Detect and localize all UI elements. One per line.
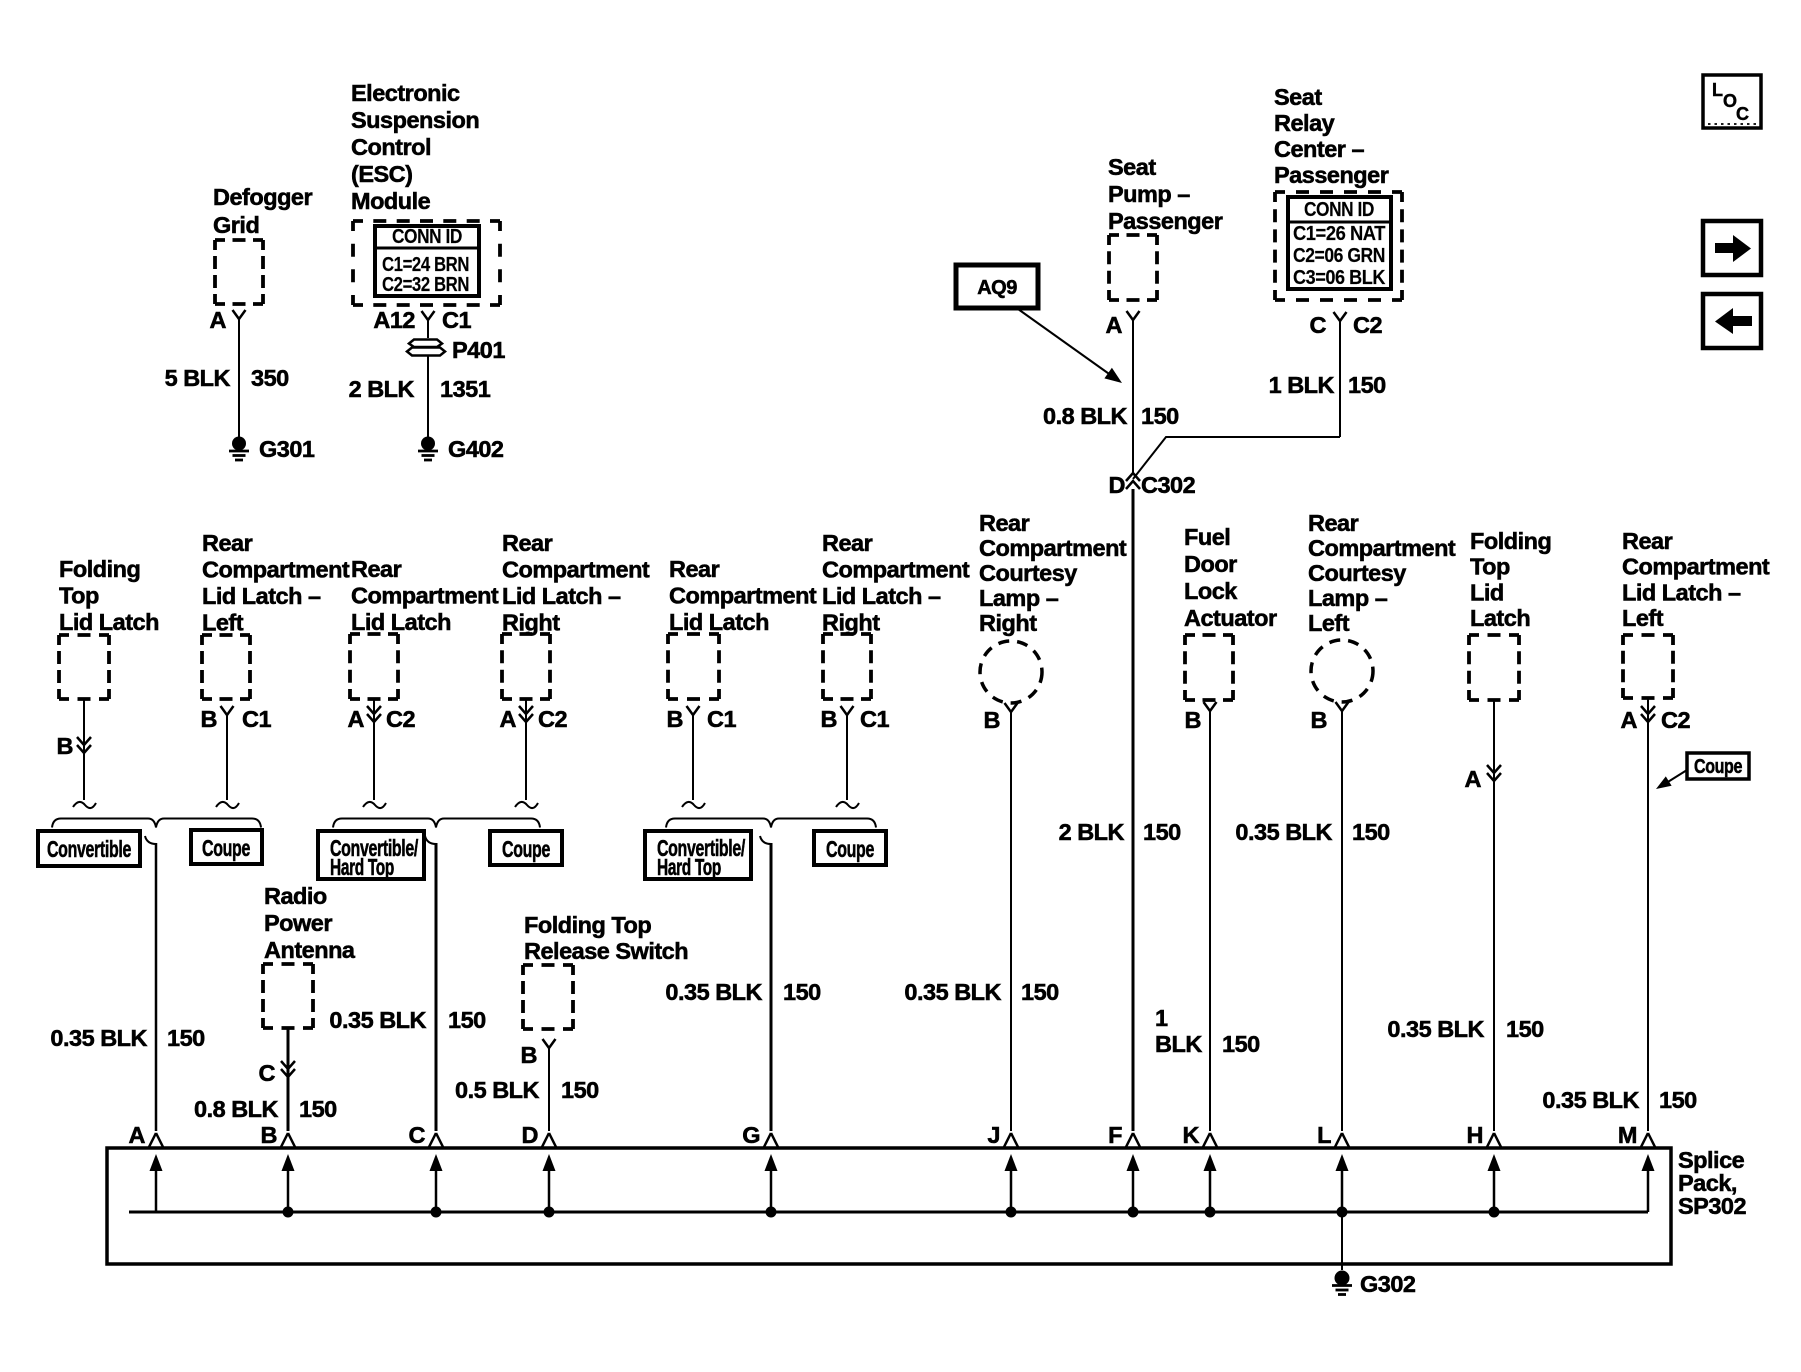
svg-text:0.35 BLK: 0.35 BLK — [1235, 819, 1332, 845]
svg-text:C: C — [1310, 312, 1327, 338]
svg-text:Left: Left — [1622, 605, 1664, 631]
svg-text:Antenna: Antenna — [264, 937, 356, 963]
svg-text:Grid: Grid — [213, 212, 259, 238]
svg-text:Door: Door — [1184, 551, 1237, 577]
svg-text:Relay: Relay — [1274, 110, 1335, 136]
svg-text:Right: Right — [822, 610, 880, 636]
svg-text:Lid Latch –: Lid Latch – — [502, 583, 621, 609]
svg-text:Center –: Center – — [1274, 136, 1364, 162]
svg-text:C2=06 GRN: C2=06 GRN — [1293, 245, 1385, 267]
svg-text:0.35 BLK: 0.35 BLK — [665, 979, 762, 1005]
svg-text:BLK: BLK — [1155, 1031, 1202, 1057]
svg-text:A: A — [129, 1122, 146, 1148]
svg-text:Rear: Rear — [1622, 528, 1673, 554]
svg-text:0.8 BLK: 0.8 BLK — [1043, 403, 1128, 429]
svg-text:Compartment: Compartment — [1622, 554, 1770, 580]
svg-text:150: 150 — [448, 1007, 486, 1033]
svg-text:Fuel: Fuel — [1184, 524, 1230, 550]
svg-text:Radio: Radio — [264, 883, 327, 909]
svg-text:B: B — [1185, 707, 1201, 733]
svg-text:C2: C2 — [1661, 707, 1690, 733]
svg-text:Actuator: Actuator — [1184, 605, 1277, 631]
svg-text:A: A — [348, 706, 365, 732]
svg-text:H: H — [1467, 1122, 1483, 1148]
svg-text:G301: G301 — [259, 436, 315, 462]
svg-text:1351: 1351 — [440, 376, 491, 402]
svg-text:C: C — [259, 1060, 276, 1086]
svg-text:150: 150 — [1141, 403, 1179, 429]
svg-text:0.5 BLK: 0.5 BLK — [455, 1077, 540, 1103]
svg-text:0.35 BLK: 0.35 BLK — [904, 979, 1001, 1005]
svg-text:150: 150 — [783, 979, 821, 1005]
svg-text:Pump –: Pump – — [1108, 181, 1190, 207]
svg-text:F: F — [1108, 1122, 1122, 1148]
svg-text:Electronic: Electronic — [351, 80, 460, 106]
svg-text:Defogger: Defogger — [213, 184, 313, 210]
svg-text:G302: G302 — [1360, 1271, 1416, 1297]
svg-text:350: 350 — [251, 365, 289, 391]
svg-text:Right: Right — [502, 610, 560, 636]
svg-text:150: 150 — [561, 1077, 599, 1103]
svg-text:CONN ID: CONN ID — [1304, 199, 1374, 221]
svg-text:Compartment: Compartment — [351, 583, 499, 609]
svg-text:150: 150 — [1659, 1087, 1697, 1113]
svg-text:150: 150 — [1143, 819, 1181, 845]
svg-text:Release Switch: Release Switch — [524, 938, 688, 964]
svg-text:B: B — [821, 706, 837, 732]
svg-text:C1: C1 — [860, 706, 889, 732]
svg-text:A: A — [500, 706, 517, 732]
svg-text:Folding: Folding — [1470, 528, 1551, 554]
svg-text:1: 1 — [1155, 1005, 1168, 1031]
svg-text:Top: Top — [1470, 554, 1510, 580]
svg-text:Power: Power — [264, 910, 332, 936]
svg-text:Suspension: Suspension — [351, 107, 479, 133]
svg-text:Left: Left — [202, 610, 244, 636]
svg-text:Lock: Lock — [1184, 578, 1238, 604]
svg-text:Rear: Rear — [669, 556, 720, 582]
svg-text:0.35 BLK: 0.35 BLK — [1387, 1016, 1484, 1042]
svg-text:G402: G402 — [448, 436, 504, 462]
svg-text:Courtesy: Courtesy — [1308, 560, 1406, 586]
svg-text:J: J — [987, 1122, 1000, 1148]
svg-text:Compartment: Compartment — [822, 557, 970, 583]
svg-text:C1: C1 — [707, 706, 736, 732]
svg-text:Coupe: Coupe — [202, 835, 250, 861]
svg-text:(ESC): (ESC) — [351, 161, 412, 187]
svg-text:Rear: Rear — [502, 530, 553, 556]
svg-text:M: M — [1618, 1122, 1637, 1148]
svg-text:Top: Top — [59, 583, 99, 609]
svg-text:A: A — [1465, 766, 1482, 792]
svg-text:A: A — [210, 307, 227, 333]
svg-text:C2: C2 — [386, 706, 415, 732]
svg-text:Hard Top: Hard Top — [657, 854, 721, 880]
svg-text:C1=26 NAT: C1=26 NAT — [1293, 223, 1385, 245]
svg-text:B: B — [261, 1122, 277, 1148]
svg-text:A: A — [1621, 707, 1638, 733]
svg-text:Lid Latch: Lid Latch — [669, 609, 769, 635]
svg-text:K: K — [1183, 1122, 1200, 1148]
svg-text:150: 150 — [1021, 979, 1059, 1005]
svg-text:SP302: SP302 — [1678, 1193, 1746, 1219]
svg-text:Folding Top: Folding Top — [524, 912, 651, 938]
svg-text:Left: Left — [1308, 610, 1350, 636]
svg-text:C1: C1 — [242, 706, 271, 732]
svg-text:Compartment: Compartment — [502, 557, 650, 583]
svg-text:AQ9: AQ9 — [977, 277, 1017, 299]
svg-text:C1=24 BRN: C1=24 BRN — [382, 254, 469, 276]
svg-text:Coupe: Coupe — [1694, 756, 1742, 778]
svg-text:Lid: Lid — [1470, 579, 1504, 605]
svg-text:150: 150 — [167, 1025, 205, 1051]
svg-text:C2: C2 — [538, 706, 567, 732]
svg-text:Courtesy: Courtesy — [979, 560, 1077, 586]
svg-text:Folding: Folding — [59, 556, 140, 582]
svg-text:0.35 BLK: 0.35 BLK — [329, 1007, 426, 1033]
svg-text:Seat: Seat — [1108, 154, 1156, 180]
svg-text:Seat: Seat — [1274, 84, 1322, 110]
svg-text:O: O — [1723, 91, 1737, 111]
svg-text:Coupe: Coupe — [826, 836, 874, 862]
svg-text:B: B — [57, 733, 73, 759]
svg-text:2 BLK: 2 BLK — [1059, 819, 1125, 845]
svg-text:5 BLK: 5 BLK — [165, 365, 231, 391]
svg-text:150: 150 — [1348, 372, 1386, 398]
svg-text:Compartment: Compartment — [202, 557, 350, 583]
svg-text:150: 150 — [299, 1096, 337, 1122]
svg-text:L: L — [1317, 1122, 1331, 1148]
svg-text:A12: A12 — [373, 307, 415, 333]
svg-text:Rear: Rear — [979, 510, 1030, 536]
svg-text:Lid Latch: Lid Latch — [59, 609, 159, 635]
svg-text:Latch: Latch — [1470, 605, 1530, 631]
svg-text:0.35 BLK: 0.35 BLK — [50, 1025, 147, 1051]
svg-text:Passenger: Passenger — [1274, 162, 1389, 188]
svg-text:Coupe: Coupe — [502, 836, 550, 862]
svg-text:L: L — [1712, 80, 1723, 100]
svg-text:A: A — [1106, 312, 1123, 338]
svg-text:Control: Control — [351, 134, 431, 160]
svg-text:C2: C2 — [1353, 312, 1382, 338]
svg-text:B: B — [1311, 707, 1327, 733]
svg-text:Module: Module — [351, 188, 431, 214]
svg-text:Lid Latch –: Lid Latch – — [1622, 579, 1741, 605]
svg-text:Compartment: Compartment — [1308, 535, 1456, 561]
svg-text:Rear: Rear — [1308, 510, 1359, 536]
svg-text:0.8 BLK: 0.8 BLK — [194, 1096, 279, 1122]
svg-text:Rear: Rear — [822, 530, 873, 556]
svg-text:D: D — [1109, 472, 1125, 498]
svg-text:Hard Top: Hard Top — [330, 854, 394, 880]
svg-text:Lamp –: Lamp – — [979, 585, 1059, 611]
svg-text:Right: Right — [979, 610, 1037, 636]
svg-text:150: 150 — [1506, 1016, 1544, 1042]
svg-text:G: G — [742, 1122, 760, 1148]
svg-text:0.35 BLK: 0.35 BLK — [1542, 1087, 1639, 1113]
svg-text:Lamp –: Lamp – — [1308, 585, 1388, 611]
svg-text:D: D — [522, 1122, 538, 1148]
svg-text:P401: P401 — [452, 337, 505, 363]
svg-text:Compartment: Compartment — [669, 583, 817, 609]
svg-text:Rear: Rear — [351, 556, 402, 582]
svg-text:150: 150 — [1352, 819, 1390, 845]
svg-text:Lid Latch –: Lid Latch – — [822, 583, 941, 609]
svg-text:C3=06 BLK: C3=06 BLK — [1293, 267, 1386, 289]
svg-text:2 BLK: 2 BLK — [349, 376, 415, 402]
svg-text:C2=32 BRN: C2=32 BRN — [382, 274, 469, 296]
svg-text:Lid Latch –: Lid Latch – — [202, 583, 321, 609]
svg-text:C: C — [1736, 104, 1749, 124]
svg-text:1 BLK: 1 BLK — [1269, 372, 1335, 398]
svg-text:CONN ID: CONN ID — [392, 226, 462, 248]
svg-text:C1: C1 — [442, 307, 471, 333]
svg-text:C: C — [409, 1122, 426, 1148]
svg-text:B: B — [201, 706, 217, 732]
svg-text:Convertible: Convertible — [47, 836, 131, 862]
svg-text:B: B — [984, 707, 1000, 733]
svg-text:Rear: Rear — [202, 530, 253, 556]
svg-text:150: 150 — [1222, 1031, 1260, 1057]
svg-text:B: B — [667, 706, 683, 732]
svg-text:B: B — [521, 1042, 537, 1068]
svg-text:C302: C302 — [1141, 472, 1196, 498]
svg-text:Compartment: Compartment — [979, 535, 1127, 561]
svg-text:Lid Latch: Lid Latch — [351, 609, 451, 635]
svg-text:Passenger: Passenger — [1108, 208, 1223, 234]
